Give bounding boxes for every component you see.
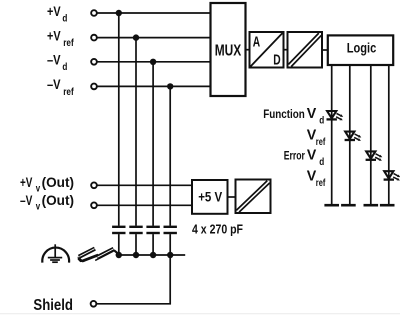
node bus 2 [133, 252, 139, 258]
node J2 +Vref drop [133, 34, 139, 40]
wire -Vd row [97, 61, 211, 63]
multiplexer MUX [211, 3, 246, 96]
terminal bar 3 [364, 204, 379, 207]
svg-text:v: v [36, 184, 41, 195]
capacitor C3 [146, 227, 159, 233]
label Function Vd [263, 106, 324, 126]
svg-text:ref: ref [316, 137, 326, 148]
terminal +Vref [47, 28, 97, 49]
svg-text:MUX: MUX [215, 43, 242, 60]
terminal bar 4 [380, 204, 395, 207]
logic block [328, 35, 393, 65]
terminal -Vd [47, 53, 97, 74]
terminal bar 1 [324, 204, 339, 207]
A/D converter U1 [250, 32, 284, 68]
terminal Shield [33, 297, 96, 314]
label Error Vd [284, 147, 325, 168]
wire below capacitor 1 [118, 234, 120, 255]
terminal -Vv (Out) [20, 193, 97, 213]
svg-text:V: V [307, 106, 317, 122]
wire below capacitor 3 [152, 234, 154, 255]
svg-text:A: A [253, 35, 261, 51]
node J3 -Vd drop [150, 59, 156, 65]
capacitor C1 [112, 227, 125, 233]
wire +Vref row [97, 37, 211, 39]
LED D3 Error Vd [366, 151, 383, 160]
wire vertical drop 1 from +Vd [118, 13, 120, 226]
svg-text:–V: –V [47, 53, 61, 68]
label Vref (function) [307, 128, 326, 149]
LED D2 Vref [345, 132, 362, 141]
svg-text:V: V [307, 147, 317, 163]
wire -Vref row [97, 85, 211, 87]
wire LED column 2 [349, 65, 351, 204]
wire below capacitor 2 [135, 234, 137, 255]
node bus 3 [150, 252, 156, 258]
svg-text:+V: +V [47, 4, 61, 19]
DIN carrier rail [78, 247, 119, 262]
svg-text:D: D [273, 52, 280, 68]
isolation barrier 2 (DC/DC) [236, 180, 271, 214]
wire +5V to isolator 2 [228, 196, 236, 198]
svg-text:Logic: Logic [347, 40, 377, 56]
wire shield riser [97, 255, 170, 304]
svg-text:(Out): (Out) [42, 193, 74, 208]
terminal bar 2 [341, 204, 356, 207]
wire +Vv row [97, 184, 192, 186]
isolation barrier 1 (signal) [288, 32, 323, 68]
svg-text:(Out): (Out) [42, 175, 74, 190]
wire -Vv row [97, 204, 192, 206]
svg-text:v: v [36, 202, 41, 213]
wire ADC to isolator [284, 49, 288, 51]
svg-text:Error: Error [284, 148, 305, 162]
node J4 -Vref drop [167, 83, 173, 89]
terminal -Vref [47, 77, 97, 98]
svg-text:d: d [62, 13, 67, 24]
svg-text:+5 V: +5 V [198, 188, 223, 204]
wire LED column 3 [370, 65, 372, 204]
wire LED column 4 [388, 65, 390, 204]
capacitor C4 [164, 227, 177, 233]
wire below capacitor 4 [169, 234, 171, 255]
svg-text:d: d [62, 62, 67, 73]
svg-text:ref: ref [63, 38, 74, 49]
svg-text:4 x 270 pF: 4 x 270 pF [192, 221, 243, 236]
svg-text:–V: –V [47, 77, 61, 92]
bottom edge rule [0, 313, 400, 314]
wire vertical drop 4 from -Vref [169, 86, 171, 225]
wire vertical drop 2 from +Vref [135, 38, 137, 226]
node bus 4 [167, 252, 173, 258]
wire +Vd row [97, 12, 211, 14]
terminal +Vd [47, 4, 97, 25]
wire isolator to Logic [322, 49, 328, 51]
wire MUX to ADC [246, 49, 250, 51]
svg-text:+V: +V [20, 175, 32, 190]
wire vertical drop 3 from -Vd [152, 62, 154, 226]
svg-text:Function: Function [263, 107, 305, 121]
node bus 1 [116, 252, 122, 258]
svg-text:–V: –V [20, 193, 32, 208]
svg-text:d: d [319, 157, 324, 168]
label Vref (error) [307, 169, 326, 190]
capacitor C2 [129, 227, 142, 233]
LED D1 Function Vd [327, 111, 344, 120]
wire shield bus [118, 254, 185, 256]
svg-text:Shield: Shield [33, 297, 73, 314]
svg-text:ref: ref [63, 87, 74, 98]
LED D4 Vref [384, 171, 400, 180]
ground (noiseless earth) [42, 244, 69, 262]
power supply +5V [192, 180, 228, 214]
svg-text:+V: +V [47, 28, 61, 43]
svg-text:ref: ref [316, 178, 326, 189]
svg-text:d: d [319, 115, 324, 126]
node J1 +Vd drop [116, 10, 122, 16]
wire LED column 1 [331, 65, 333, 204]
terminal +Vv (Out) [20, 175, 97, 195]
